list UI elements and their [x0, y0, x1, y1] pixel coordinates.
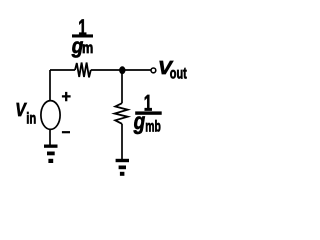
- svg-text:mb: mb: [145, 119, 161, 136]
- plus polarity mark: [62, 92, 71, 101]
- svg-text:m: m: [82, 40, 93, 57]
- wire left vertical (top wire down to source): [49, 70, 51, 101]
- label 1/gmb fraction: [133, 90, 162, 135]
- voltage source Vin (circle): [41, 101, 60, 130]
- output terminal open circle: [151, 68, 156, 73]
- wire top horizontal left segment: [50, 69, 75, 71]
- resistor 1/gm (horizontal zigzag): [75, 63, 91, 78]
- label 1/gm fraction: [71, 15, 93, 58]
- ground (left, below Vin): [44, 145, 58, 164]
- label Vin: [15, 99, 36, 127]
- ground (right, below 1/gmb): [116, 159, 129, 176]
- wire node down to resistor 1/gmb: [121, 70, 123, 103]
- node junction dot: [119, 66, 125, 74]
- svg-text:g: g: [133, 108, 145, 134]
- wire top horizontal right segment to output terminal: [91, 69, 151, 71]
- label Vout: [158, 57, 187, 82]
- minus polarity mark: [62, 131, 70, 133]
- resistor 1/gmb (vertical zigzag): [115, 103, 128, 124]
- svg-text:in: in: [26, 110, 36, 127]
- wire source to ground: [49, 130, 51, 146]
- svg-text:V: V: [15, 99, 27, 120]
- svg-text:out: out: [170, 65, 187, 82]
- wire resistor to ground: [121, 124, 123, 159]
